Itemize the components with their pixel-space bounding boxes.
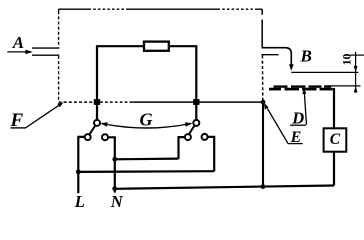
switch S1 blade <box>89 126 95 135</box>
switch S2 right contact <box>202 134 208 140</box>
svg-text:N: N <box>110 192 124 211</box>
dimension line vertical <box>355 52 357 93</box>
air outlet duct B upper line with hook <box>262 48 292 65</box>
dimension extension line bottom (element level) <box>326 85 361 87</box>
bushing where right wire crosses enclosure <box>193 99 199 105</box>
heating element D upper dash row <box>274 85 332 87</box>
control box C <box>324 128 347 151</box>
svg-text:10: 10 <box>339 54 353 66</box>
junction dot enclosure corner node <box>261 100 266 105</box>
wire S1 left contact to L <box>78 137 85 193</box>
leader E to corner node <box>264 103 288 144</box>
arrow G double curved <box>100 122 192 128</box>
arrow A airflow <box>7 50 33 54</box>
switch S2 blade <box>189 126 195 135</box>
air inlet duct A (two lines) <box>32 48 59 55</box>
leader D to element <box>302 88 306 125</box>
dimension arrow up <box>354 86 358 92</box>
wire drop from enclosure corner to rail <box>262 102 264 187</box>
switch S1 pivot circle <box>94 120 100 126</box>
dimension arrow down <box>354 66 358 72</box>
resistor element R (motor) <box>144 42 169 51</box>
heating element D lower dash row <box>269 88 333 91</box>
leader F to enclosure <box>26 102 64 128</box>
arrow B tip <box>289 64 294 71</box>
wire C to rail <box>333 152 335 186</box>
enclosure F left edge (dashed) <box>58 9 60 102</box>
wire S2 right contact down <box>208 137 215 171</box>
junction dot N link <box>112 157 117 162</box>
svg-text:G: G <box>140 109 153 129</box>
svg-text:C: C <box>330 131 341 148</box>
wire loop top left segment <box>96 45 145 47</box>
switch S1 left contact <box>85 134 91 140</box>
wire element to control C <box>333 88 335 128</box>
air outlet duct B lower line <box>262 54 279 56</box>
bushing where left wire crosses enclosure <box>94 99 100 105</box>
svg-text:A: A <box>12 33 24 52</box>
enclosure F bottom edge <box>59 101 263 103</box>
switch S2 pivot circle <box>193 120 199 126</box>
svg-text:L: L <box>74 192 85 211</box>
wire loop right vertical <box>195 46 197 120</box>
switch S1 right contact <box>102 134 108 140</box>
enclosure F right edge <box>261 9 264 101</box>
junction dot L link <box>76 169 81 174</box>
svg-text:B: B <box>300 47 312 66</box>
switch S2 left contact <box>185 134 191 140</box>
enclosure F dash-dot boundary top edge <box>59 8 263 10</box>
wire link L to S2 right contact <box>78 170 214 173</box>
underline E <box>288 143 303 145</box>
wire link N to S2 left contact <box>115 158 179 161</box>
wire fan-motor loop left vertical <box>96 46 98 120</box>
wire loop top right segment <box>169 45 198 47</box>
underline D <box>290 124 306 126</box>
underline F <box>11 127 26 129</box>
wire N bottom rail <box>115 186 334 189</box>
dimension extension line top (B level) <box>291 71 358 73</box>
dimension extension line at outlet lip level <box>350 54 364 56</box>
junction dot N rail <box>112 186 117 191</box>
wire S2 left contact down <box>179 137 186 159</box>
junction dot rail mid <box>261 184 266 189</box>
wire S1 right contact to N <box>108 137 115 192</box>
